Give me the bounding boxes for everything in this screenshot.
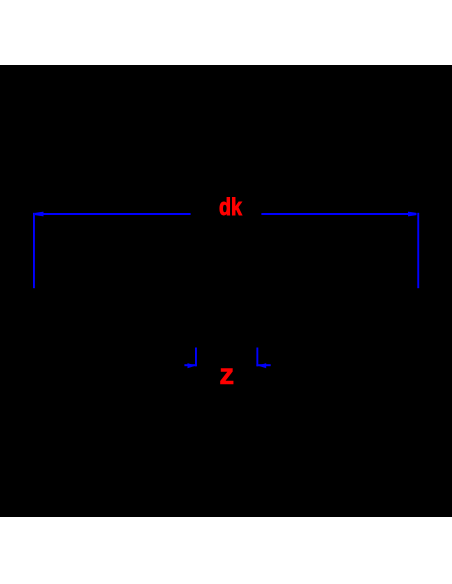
arrowhead left (z): [188, 363, 196, 368]
extension line left (z): [195, 348, 197, 367]
extension line right (dk): [417, 213, 419, 288]
leader line right (z): [256, 364, 270, 366]
leader line left (z): [184, 364, 196, 366]
black drawing background: [0, 65, 452, 517]
extension line right (z): [256, 348, 258, 367]
dimension line dk right segment: [261, 213, 416, 215]
arrowhead left (dk): [35, 212, 44, 217]
svg-text:dk: dk: [219, 194, 243, 221]
dimension line dk left segment: [35, 213, 191, 215]
extension line left (dk): [33, 213, 35, 288]
arrowhead right (dk): [408, 212, 417, 217]
arrowhead right (z): [258, 363, 266, 368]
svg-text:z: z: [219, 358, 234, 391]
